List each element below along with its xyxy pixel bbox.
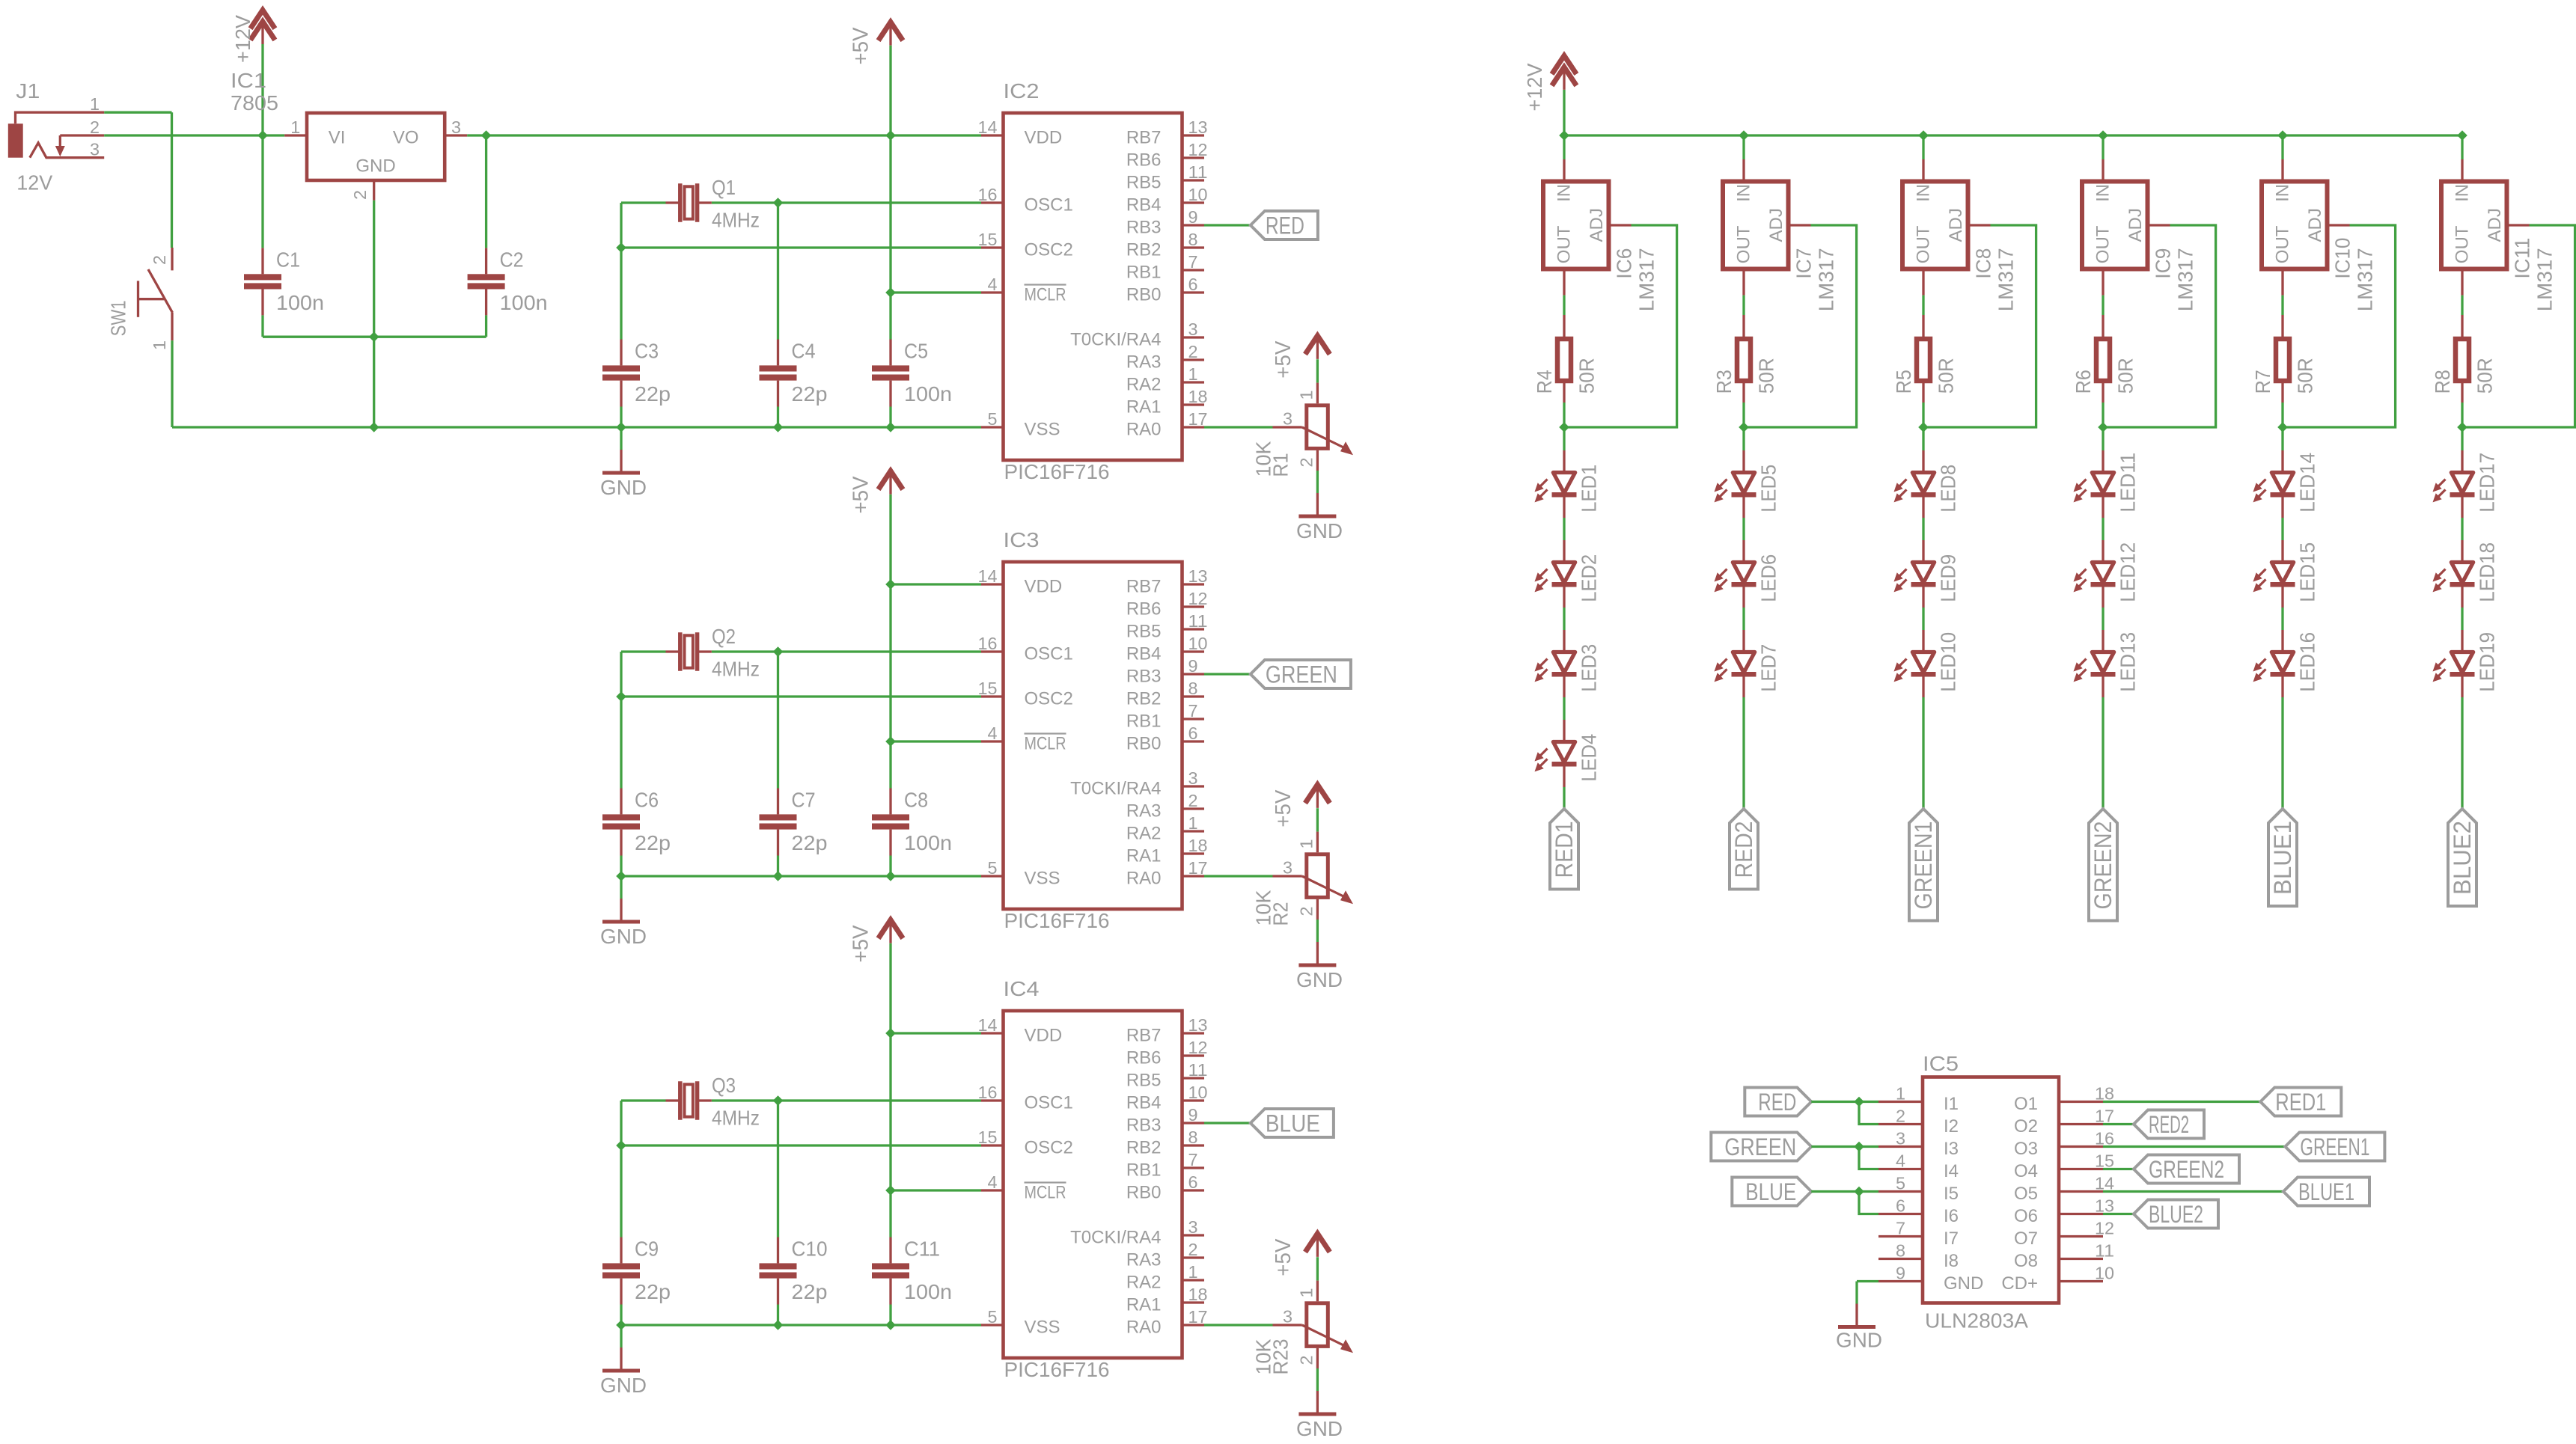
LED LED1 bbox=[1535, 450, 1577, 518]
svg-text:RB7: RB7 bbox=[1126, 1026, 1162, 1046]
svg-text:O4: O4 bbox=[2014, 1161, 2038, 1181]
svg-text:2: 2 bbox=[1297, 1356, 1316, 1365]
junction VSS rail at C8 bbox=[885, 871, 896, 881]
svg-text:7: 7 bbox=[1188, 701, 1198, 721]
wire OSC1 IC2 bbox=[778, 201, 982, 204]
svg-text:50R: 50R bbox=[1575, 358, 1599, 394]
svg-text:5: 5 bbox=[988, 858, 998, 878]
Q2 name label bbox=[712, 625, 736, 648]
svg-text:12V: 12V bbox=[16, 171, 52, 194]
power symbol +5V above R23 bbox=[1305, 1234, 1330, 1257]
svg-text:VDD: VDD bbox=[1025, 1026, 1063, 1046]
svg-text:11: 11 bbox=[1188, 162, 1208, 182]
svg-text:1: 1 bbox=[150, 340, 169, 350]
IC8 name label bbox=[1972, 248, 1995, 279]
wire OSC2 IC4 bbox=[621, 1144, 981, 1146]
wire LED8 to next LED bbox=[1922, 518, 1924, 540]
net flag BLUE2 bbox=[2134, 1200, 2218, 1229]
svg-text:ADJ: ADJ bbox=[1766, 208, 1786, 242]
LED LED4 bbox=[1535, 720, 1577, 787]
svg-text:O2: O2 bbox=[2014, 1116, 2038, 1136]
wire IN pin IC9 bbox=[2102, 135, 2104, 159]
svg-text:15: 15 bbox=[978, 679, 998, 698]
svg-text:OSC2: OSC2 bbox=[1025, 689, 1073, 709]
svg-text:I4: I4 bbox=[1944, 1161, 1959, 1181]
svg-text:LED19: LED19 bbox=[2476, 632, 2499, 692]
svg-text:50R: 50R bbox=[2473, 358, 2497, 394]
junction VDD IC2 bbox=[885, 130, 896, 141]
junction +12V rail column IC11 bbox=[2457, 130, 2467, 141]
wire RB3 to RED flag bbox=[1204, 224, 1251, 226]
svg-text:6: 6 bbox=[1896, 1196, 1905, 1216]
C9 name label bbox=[635, 1238, 659, 1261]
junction VSS rail at C3 bbox=[616, 422, 626, 432]
svg-text:Q1: Q1 bbox=[712, 176, 736, 199]
svg-text:LM317: LM317 bbox=[1994, 248, 2018, 311]
svg-text:14: 14 bbox=[2095, 1174, 2114, 1193]
svg-text:IC9: IC9 bbox=[2152, 248, 2175, 279]
R2 pin numbers bbox=[1283, 839, 1316, 917]
junction below R4 bbox=[1559, 422, 1569, 432]
svg-text:I3: I3 bbox=[1944, 1139, 1959, 1159]
svg-text:BLUE1: BLUE1 bbox=[2269, 821, 2296, 895]
svg-text:RB0: RB0 bbox=[1126, 734, 1162, 754]
ground symbol below C9 bbox=[602, 1325, 640, 1373]
junction +12V rail at IC6 bbox=[1559, 130, 1569, 141]
net flag GREEN1 bbox=[2285, 1133, 2384, 1161]
svg-text:IC8: IC8 bbox=[1972, 248, 1995, 279]
svg-text:9: 9 bbox=[1188, 656, 1198, 676]
LED3 name label bbox=[1578, 644, 1601, 692]
wire IN pin IC8 bbox=[1922, 135, 1924, 159]
svg-text:4MHz: 4MHz bbox=[712, 209, 760, 232]
wire LED chain to RED2 flag bbox=[1742, 697, 1745, 809]
wire +5V column down to MCLR IC3 bbox=[889, 584, 891, 741]
svg-text:T0CKI/RA4: T0CKI/RA4 bbox=[1070, 779, 1161, 799]
svg-text:10K: 10K bbox=[1252, 890, 1275, 926]
svg-text:4MHz: 4MHz bbox=[712, 1107, 760, 1130]
wire VSS rail IC3 bbox=[621, 875, 981, 877]
svg-text:10K: 10K bbox=[1252, 1339, 1275, 1374]
wire O3 to GREEN1 flag bbox=[2103, 1145, 2285, 1148]
svg-text:GND: GND bbox=[1944, 1273, 1983, 1294]
C6 name label bbox=[635, 789, 659, 812]
power symbol +5V above R2 bbox=[1305, 785, 1330, 808]
LED LED2 bbox=[1535, 540, 1577, 608]
svg-text:BLUE: BLUE bbox=[1745, 1178, 1796, 1205]
svg-text:I6: I6 bbox=[1944, 1206, 1959, 1226]
svg-text:17: 17 bbox=[1188, 858, 1208, 878]
svg-text:OSC2: OSC2 bbox=[1025, 240, 1073, 260]
Q1 name label bbox=[712, 176, 736, 199]
svg-text:ADJ: ADJ bbox=[1587, 208, 1607, 242]
svg-text:RB5: RB5 bbox=[1126, 173, 1162, 193]
LED LED16 bbox=[2253, 630, 2295, 697]
ground symbol below C6 bbox=[602, 876, 640, 924]
net flag GREEN2 bbox=[2089, 809, 2117, 921]
svg-text:7: 7 bbox=[1896, 1219, 1905, 1238]
wire C1-C2 ground row bbox=[263, 336, 486, 338]
svg-text:RB0: RB0 bbox=[1126, 285, 1162, 305]
svg-text:8: 8 bbox=[1188, 1128, 1198, 1147]
svg-text:GREEN2: GREEN2 bbox=[2149, 1156, 2224, 1183]
LED11 name label bbox=[2116, 453, 2140, 513]
svg-text:RB7: RB7 bbox=[1126, 128, 1162, 148]
wire ADJ feedback IC8 bbox=[1923, 225, 2036, 427]
wire IN pin IC10 bbox=[2281, 135, 2283, 159]
svg-text:J1: J1 bbox=[16, 79, 40, 103]
svg-text:LM317: LM317 bbox=[2533, 248, 2557, 311]
J1 name label bbox=[16, 79, 40, 103]
LED LED7 bbox=[1715, 630, 1756, 697]
wire junction to LED1 bbox=[1563, 427, 1565, 450]
svg-text:+5V: +5V bbox=[849, 476, 873, 514]
svg-text:I5: I5 bbox=[1944, 1184, 1959, 1204]
net flag BLUE input bbox=[1732, 1178, 1811, 1206]
svg-text:15: 15 bbox=[978, 1128, 998, 1147]
C1 name label bbox=[276, 248, 300, 271]
svg-text:8: 8 bbox=[1188, 679, 1198, 698]
IC5 value label ULN2803A bbox=[1925, 1309, 2028, 1333]
junction OSC1 IC3 bbox=[773, 646, 784, 657]
wire IC1 GND to bottom rail bbox=[373, 337, 375, 427]
svg-text:10: 10 bbox=[1188, 634, 1208, 653]
svg-text:IN: IN bbox=[2272, 184, 2292, 202]
svg-text:RA3: RA3 bbox=[1126, 801, 1162, 822]
wire OSC2 IC2 bbox=[621, 246, 981, 248]
svg-text:C8: C8 bbox=[904, 789, 928, 812]
LED15 name label bbox=[2296, 542, 2319, 602]
svg-text:RB4: RB4 bbox=[1126, 644, 1162, 664]
svg-text:LED3: LED3 bbox=[1578, 644, 1601, 692]
svg-text:18: 18 bbox=[1188, 836, 1208, 855]
junction VSS rail at C9 bbox=[616, 1320, 626, 1330]
driver IC5 ULN2803A bbox=[1878, 1077, 2103, 1303]
svg-text:LM317: LM317 bbox=[1815, 248, 1838, 311]
svg-text:I2: I2 bbox=[1944, 1116, 1959, 1136]
svg-text:LED17: LED17 bbox=[2476, 453, 2499, 513]
wire +5V to R23 bbox=[1316, 1257, 1319, 1280]
svg-text:GND: GND bbox=[600, 1374, 647, 1397]
wire LED17 to next LED bbox=[2461, 518, 2463, 540]
microcontroller IC3 PIC16F716 bbox=[981, 562, 1204, 909]
svg-text:LED13: LED13 bbox=[2116, 632, 2140, 692]
potentiometer R2 10K bbox=[1273, 832, 1354, 920]
svg-text:22p: 22p bbox=[792, 382, 828, 406]
resistor R4 50R bbox=[1557, 315, 1571, 403]
svg-text:GND: GND bbox=[1296, 519, 1343, 542]
svg-text:4: 4 bbox=[988, 723, 998, 743]
svg-text:RA0: RA0 bbox=[1126, 869, 1162, 889]
svg-text:LED5: LED5 bbox=[1757, 465, 1780, 513]
R3 value label 50R bbox=[1755, 358, 1778, 394]
svg-text:RB1: RB1 bbox=[1126, 263, 1162, 283]
GND label below R1 bbox=[1296, 519, 1343, 542]
C4 value label 22p bbox=[792, 382, 828, 406]
svg-text:IC2: IC2 bbox=[1004, 79, 1040, 103]
LED19 name label bbox=[2476, 632, 2499, 692]
IC7 value label LM317 bbox=[1815, 248, 1838, 311]
svg-text:LED11: LED11 bbox=[2116, 453, 2140, 513]
junction VSS rail at C7 bbox=[773, 871, 784, 881]
wire LED15 to next LED bbox=[2281, 608, 2283, 630]
wire LED14 to next LED bbox=[2281, 518, 2283, 540]
LED LED17 bbox=[2433, 450, 2475, 518]
wire +5V to R2 bbox=[1316, 808, 1319, 831]
regulator IC10 LM317 bbox=[2262, 159, 2350, 296]
IC9 value label LM317 bbox=[2174, 248, 2197, 311]
svg-text:ADJ: ADJ bbox=[2305, 208, 2325, 242]
svg-text:RB1: RB1 bbox=[1126, 1160, 1162, 1181]
junction below R5 bbox=[1918, 422, 1929, 432]
svg-text:GND: GND bbox=[600, 476, 647, 499]
svg-text:IC10: IC10 bbox=[2331, 238, 2354, 279]
wire O1 to RED1 flag bbox=[2103, 1101, 2260, 1103]
svg-text:C10: C10 bbox=[792, 1238, 828, 1261]
wire OSC2 IC3 bbox=[621, 695, 981, 697]
wire LED5 to next LED bbox=[1742, 518, 1745, 540]
svg-text:VO: VO bbox=[393, 128, 419, 148]
svg-text:I7: I7 bbox=[1944, 1229, 1959, 1249]
svg-text:100n: 100n bbox=[500, 291, 548, 314]
LED13 name label bbox=[2116, 632, 2140, 692]
svg-text:MCLR: MCLR bbox=[1025, 285, 1066, 305]
net flag BLUE1 bbox=[2283, 1178, 2369, 1206]
net flag BLUE bbox=[1251, 1109, 1334, 1137]
svg-text:11: 11 bbox=[2095, 1241, 2114, 1261]
wire crystal left to OSC2 IC2 bbox=[620, 203, 622, 248]
R8 name label bbox=[2431, 370, 2454, 394]
wire LED chain to BLUE2 flag bbox=[2461, 697, 2463, 809]
wire MCLR IC2 bbox=[891, 291, 981, 293]
R7 value label 50R bbox=[2294, 358, 2317, 394]
IC6 name label bbox=[1613, 248, 1636, 279]
svg-text:IC7: IC7 bbox=[1792, 248, 1816, 279]
svg-text:PIC16F716: PIC16F716 bbox=[1004, 1358, 1110, 1381]
svg-text:GND: GND bbox=[600, 925, 647, 948]
LED LED18 bbox=[2433, 540, 2475, 608]
Q2 value label 4MHz bbox=[712, 658, 760, 681]
svg-text:VDD: VDD bbox=[1025, 128, 1063, 148]
svg-text:RB2: RB2 bbox=[1126, 240, 1162, 260]
wire R5 to LED chain bbox=[1922, 403, 1924, 427]
R23 pin numbers bbox=[1283, 1288, 1316, 1365]
net flag GREEN input bbox=[1711, 1133, 1811, 1161]
svg-text:3: 3 bbox=[90, 140, 100, 159]
R1 value label 10K bbox=[1252, 441, 1275, 477]
GND label below C9 bbox=[600, 1374, 647, 1397]
wire IN pin IC11 bbox=[2461, 135, 2463, 159]
svg-text:LED8: LED8 bbox=[1937, 465, 1960, 513]
svg-text:PIC16F716: PIC16F716 bbox=[1004, 460, 1110, 483]
svg-text:RA0: RA0 bbox=[1126, 1318, 1162, 1338]
junction ground row at IC1 GND bbox=[369, 331, 379, 342]
C11 name label bbox=[904, 1238, 940, 1261]
svg-text:IC3: IC3 bbox=[1004, 528, 1040, 551]
junction OSC2 IC3 bbox=[616, 691, 626, 702]
svg-text:PIC16F716: PIC16F716 bbox=[1004, 909, 1110, 932]
svg-text:3: 3 bbox=[1283, 1307, 1292, 1327]
svg-text:10: 10 bbox=[1188, 185, 1208, 204]
svg-text:OSC1: OSC1 bbox=[1025, 195, 1073, 215]
IC10 name label bbox=[2331, 238, 2354, 279]
svg-text:RB4: RB4 bbox=[1126, 195, 1162, 215]
R6 value label 50R bbox=[2114, 358, 2137, 394]
+5V label for IC3 bbox=[849, 476, 873, 514]
IC3 pin numbers bbox=[978, 566, 1208, 878]
svg-text:1: 1 bbox=[1297, 1288, 1316, 1298]
LED18 name label bbox=[2476, 542, 2499, 602]
svg-text:GND: GND bbox=[355, 156, 395, 177]
net flag RED1 bbox=[1550, 809, 1578, 890]
wire +5V stem IC2 bbox=[889, 46, 891, 135]
wire J1 pin1 to SW1 bbox=[104, 112, 171, 248]
wire OUT to R7 bbox=[2281, 296, 2283, 315]
svg-text:50R: 50R bbox=[2294, 358, 2317, 394]
svg-text:VSS: VSS bbox=[1025, 1318, 1060, 1338]
svg-text:4: 4 bbox=[988, 275, 998, 294]
svg-text:VI: VI bbox=[329, 128, 346, 148]
capacitor C7 bbox=[760, 652, 797, 876]
svg-text:14: 14 bbox=[978, 1015, 998, 1035]
svg-text:11: 11 bbox=[1188, 1060, 1208, 1080]
wire GREEN branch to second pin bbox=[1859, 1147, 1878, 1169]
svg-text:O1: O1 bbox=[2014, 1094, 2038, 1114]
svg-text:14: 14 bbox=[978, 566, 998, 586]
capacitor C8 bbox=[872, 741, 909, 876]
wire RA0 to pot R23 bbox=[1204, 1324, 1273, 1326]
C7 value label 22p bbox=[792, 831, 828, 854]
wire RB3 to BLUE flag bbox=[1204, 1122, 1251, 1124]
LED LED13 bbox=[2074, 630, 2116, 697]
resistor R8 50R bbox=[2456, 315, 2469, 403]
wire ADJ feedback IC10 bbox=[2283, 225, 2396, 427]
wire R3 to LED chain bbox=[1742, 403, 1745, 427]
IC6 value label LM317 bbox=[1635, 248, 1658, 311]
svg-text:14: 14 bbox=[978, 117, 998, 137]
junction +12V rail column IC9 bbox=[2098, 130, 2108, 141]
wire MCLR IC4 bbox=[891, 1189, 981, 1191]
net flag BLUE1 bbox=[2268, 809, 2297, 906]
junction +12V rail column IC10 bbox=[2277, 130, 2288, 141]
IC8 value label LM317 bbox=[1994, 248, 2018, 311]
svg-text:LED10: LED10 bbox=[1937, 632, 1960, 692]
SW1 name label bbox=[107, 300, 130, 336]
IC1 pin numbers bbox=[290, 117, 461, 200]
wire OUT to R5 bbox=[1922, 296, 1924, 315]
junction GREEN input bbox=[1854, 1142, 1864, 1152]
svg-text:RB5: RB5 bbox=[1126, 622, 1162, 642]
resistor R3 50R bbox=[1737, 315, 1751, 403]
IC5 pin numbers bbox=[1896, 1084, 2114, 1283]
wire OSC1 IC3 bbox=[778, 650, 982, 652]
svg-text:15: 15 bbox=[2095, 1151, 2114, 1171]
svg-text:Q2: Q2 bbox=[712, 625, 736, 648]
svg-text:C7: C7 bbox=[792, 789, 816, 812]
regulator IC1 7805 bbox=[284, 113, 467, 201]
Q3 value label 4MHz bbox=[712, 1107, 760, 1130]
wire main ground rail bbox=[172, 426, 981, 428]
C11 value label 100n bbox=[904, 1280, 952, 1303]
svg-text:C2: C2 bbox=[500, 248, 524, 271]
svg-text:22p: 22p bbox=[792, 831, 828, 854]
svg-text:O6: O6 bbox=[2014, 1206, 2038, 1226]
wire VDD IC3 bbox=[891, 583, 981, 585]
junction below R7 bbox=[2277, 422, 2288, 432]
junction BLUE input bbox=[1854, 1187, 1864, 1197]
svg-text:RB7: RB7 bbox=[1126, 577, 1162, 597]
crystal Q3 bbox=[621, 1081, 778, 1119]
wire LED1 to next LED bbox=[1563, 518, 1565, 540]
svg-text:R5: R5 bbox=[1892, 370, 1915, 394]
svg-text:RB6: RB6 bbox=[1126, 599, 1162, 619]
svg-text:GREEN: GREEN bbox=[1266, 661, 1337, 688]
svg-text:18: 18 bbox=[2095, 1084, 2114, 1104]
R4 name label bbox=[1533, 370, 1556, 394]
svg-text:OUT: OUT bbox=[1913, 225, 1933, 263]
LED6 name label bbox=[1757, 554, 1780, 602]
svg-text:22p: 22p bbox=[792, 1280, 828, 1303]
svg-text:GREEN1: GREEN1 bbox=[2300, 1134, 2369, 1160]
wire +5V stem IC3 bbox=[889, 495, 891, 584]
wire LED chain to BLUE1 flag bbox=[2281, 697, 2283, 809]
svg-text:17: 17 bbox=[2095, 1107, 2114, 1126]
svg-text:+5V: +5V bbox=[1272, 789, 1295, 827]
power symbol +5V for IC2 bbox=[879, 22, 903, 46]
svg-text:2: 2 bbox=[1188, 791, 1198, 810]
wire GREEN flag to pin bbox=[1811, 1145, 1878, 1148]
R5 value label 50R bbox=[1935, 358, 1958, 394]
crystal Q2 bbox=[621, 632, 778, 670]
wire junction to LED11 bbox=[2102, 427, 2104, 450]
wire +5V column down to MCLR IC2 bbox=[889, 135, 891, 293]
junction VDD IC3 bbox=[885, 579, 896, 590]
capacitor C10 bbox=[760, 1101, 797, 1325]
svg-text:LM317: LM317 bbox=[2174, 248, 2197, 311]
svg-text:I1: I1 bbox=[1944, 1094, 1959, 1114]
power symbol +12V right bbox=[1552, 55, 1577, 90]
junction MCLR IC3 bbox=[885, 736, 896, 747]
IC4 name label bbox=[1004, 977, 1040, 1000]
power symbol +5V for IC3 bbox=[879, 471, 903, 495]
wire R6 to LED chain bbox=[2102, 403, 2104, 427]
svg-text:RB0: RB0 bbox=[1126, 1183, 1162, 1203]
wire LED chain to RED1 flag bbox=[1563, 787, 1565, 809]
svg-text:RB2: RB2 bbox=[1126, 1138, 1162, 1158]
net flag GREEN1 bbox=[1909, 809, 1938, 921]
svg-text:C6: C6 bbox=[635, 789, 659, 812]
junction +12V at C1 bbox=[257, 130, 268, 141]
svg-text:GREEN2: GREEN2 bbox=[2090, 822, 2116, 910]
svg-text:OUT: OUT bbox=[2452, 225, 2472, 263]
potentiometer R23 10K bbox=[1273, 1281, 1354, 1368]
R4 value label 50R bbox=[1575, 358, 1599, 394]
microcontroller IC2 PIC16F716 bbox=[981, 113, 1204, 460]
LED LED5 bbox=[1715, 450, 1756, 518]
svg-text:LED16: LED16 bbox=[2296, 632, 2319, 692]
+5V label above R23 bbox=[1272, 1238, 1295, 1276]
svg-text:3: 3 bbox=[1188, 1217, 1198, 1237]
svg-text:7: 7 bbox=[1188, 1150, 1198, 1169]
wire RED flag to pin bbox=[1811, 1101, 1878, 1103]
wire RB3 to GREEN flag bbox=[1204, 673, 1251, 675]
junction OSC2 IC4 bbox=[616, 1140, 626, 1151]
svg-text:1: 1 bbox=[1188, 1262, 1198, 1282]
junction VSS rail at C6 bbox=[616, 871, 626, 881]
power symbol +12V left bbox=[251, 10, 275, 45]
svg-text:15: 15 bbox=[978, 230, 998, 249]
wire BLUE flag to pin bbox=[1811, 1190, 1878, 1193]
